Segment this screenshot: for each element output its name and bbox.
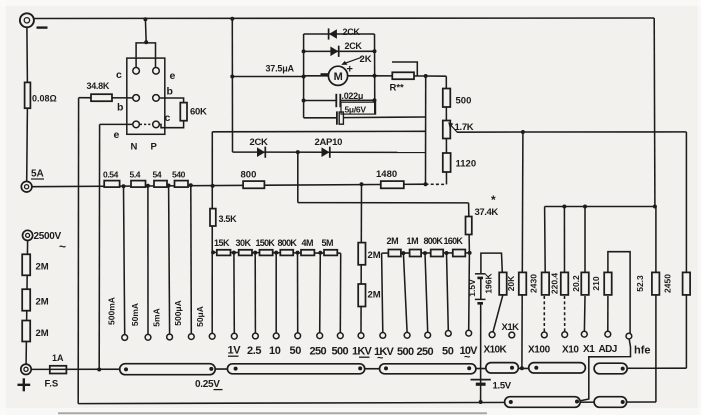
svg-text:250: 250: [310, 346, 327, 358]
wire ohm bus drop to 20.2: [584, 207, 586, 273]
terminal X10: [562, 332, 568, 338]
resistor 3.5K: [210, 209, 216, 226]
contact wafer5 left: [534, 366, 538, 370]
wire main current bus 5A terminal to 1480 right node: [32, 184, 426, 187]
svg-text:~: ~: [464, 352, 471, 364]
node bus 60K branch: [211, 184, 215, 188]
socket pin c right: [153, 121, 160, 128]
contact wafer8 right: [621, 400, 625, 404]
wire 52.3 branch: [655, 207, 657, 403]
contact wafer3 right: [467, 366, 471, 370]
svg-text:800K: 800K: [278, 238, 298, 248]
resistor 220.4: [561, 272, 569, 295]
terminal 500V: [337, 333, 343, 339]
node dc chain 1V: [232, 251, 236, 255]
wire meter protection diode branch 2: [304, 50, 375, 52]
label 5A underline: [31, 178, 44, 180]
wire diode branch vertical from top bus: [231, 19, 233, 152]
svg-text:210: 210: [591, 276, 601, 290]
terminal X100: [541, 332, 547, 338]
svg-text:2M: 2M: [387, 236, 399, 246]
terminal 10V: [273, 333, 279, 339]
node fuse to switch: [97, 368, 101, 372]
svg-text:60K: 60K: [190, 107, 207, 118]
resistor 2M hv 3: [22, 321, 30, 342]
terminal 1KV AC: [380, 333, 386, 339]
contact wafer1 right: [209, 367, 213, 371]
resistor 196K: [499, 272, 507, 295]
resistor 1480: [381, 181, 404, 188]
wire 210 top bracket to hfe terminal: [608, 252, 630, 333]
diode 2CK second: [330, 46, 338, 57]
resistor 37.4K: [466, 217, 472, 235]
capacitor .022u plates: [336, 94, 340, 107]
svg-text:10: 10: [269, 345, 281, 357]
svg-text:2CK: 2CK: [250, 137, 269, 148]
wire rectifier diode row: [233, 151, 426, 153]
socket pin b left: [133, 95, 140, 102]
terminal X1K: [509, 332, 515, 338]
wire 5mA drop: [169, 186, 170, 335]
wire 250V tap drop: [319, 253, 322, 333]
svg-text:5.4: 5.4: [130, 170, 141, 180]
svg-text:5A: 5A: [31, 169, 44, 180]
terminal 50uA: [209, 333, 215, 339]
wire meter plus to R* to node: [375, 75, 426, 77]
svg-text:20.2: 20.2: [571, 275, 581, 292]
rheostat R* top bar: [392, 62, 417, 76]
node left bus d2: [302, 49, 306, 53]
diode 2AP10: [322, 147, 330, 158]
svg-text:50: 50: [442, 346, 454, 358]
svg-text:M: M: [334, 71, 343, 83]
resistor 2M vertical lower: [358, 284, 365, 307]
wire hfe terminal to bottom switch: [578, 339, 631, 401]
terminal X10K: [489, 332, 495, 338]
capacitor 5u/6V electrolytic plates: [337, 111, 344, 124]
terminal 50V AC: [445, 331, 451, 337]
resistor 160K ac: [453, 250, 466, 257]
resistor 1120: [443, 153, 451, 172]
svg-text:4M: 4M: [302, 238, 314, 248]
svg-text:1A: 1A: [52, 353, 64, 363]
contact wafer4 right: [510, 366, 514, 370]
node top bus diode branch: [230, 17, 234, 21]
svg-text:c: c: [116, 69, 122, 81]
svg-text:50: 50: [290, 345, 302, 357]
resistor 800: [243, 181, 264, 188]
terminal X1: [581, 331, 587, 337]
svg-text:b: b: [117, 102, 123, 114]
svg-text:b: b: [167, 86, 173, 98]
svg-text:160K: 160K: [444, 236, 464, 246]
resistor 54: [154, 181, 167, 188]
svg-text:2M: 2M: [36, 328, 49, 339]
node bus 2M tap: [360, 182, 364, 186]
svg-text:34.8K: 34.8K: [87, 81, 110, 91]
node dc chain 50V: [296, 251, 300, 255]
resistor 1M ac: [410, 250, 422, 257]
svg-text:2AP10: 2AP10: [315, 137, 343, 148]
svg-text:2M: 2M: [36, 297, 49, 308]
svg-text:2K: 2K: [360, 54, 372, 65]
transistor socket N-P body: [127, 58, 165, 134]
node socket bracket: [144, 40, 148, 44]
terminal 50mA: [145, 334, 151, 340]
wire ohm battery bracket: [481, 253, 502, 273]
svg-text:0.54: 0.54: [103, 170, 119, 180]
svg-text:0.08Ω: 0.08Ω: [32, 94, 57, 104]
wire socket bracket stem: [144, 19, 147, 42]
contact wafer1 left: [124, 367, 128, 371]
svg-text:5mA: 5mA: [152, 308, 162, 326]
node ac chain 10V: [468, 251, 472, 255]
wire 1V tap drop: [233, 253, 235, 334]
switch wafer bottom right: [594, 397, 627, 408]
wire 250V AC tap drop: [425, 253, 428, 332]
svg-text:P: P: [151, 142, 158, 153]
svg-text:~: ~: [377, 353, 384, 365]
switch wafer ADJ: [594, 363, 627, 374]
wire capacitor branch left: [304, 100, 336, 102]
wire capacitor branch right: [341, 99, 375, 101]
terminal hfe: [626, 333, 632, 339]
terminal plus mark: [18, 378, 31, 391]
wire X10K diagonal: [493, 295, 503, 332]
resistor 800K dc: [280, 250, 293, 256]
terminal 2.5V: [253, 333, 259, 339]
node left bus meter: [302, 75, 306, 79]
resistor 20.2: [581, 272, 589, 295]
svg-text:hfe: hfe: [634, 345, 651, 357]
svg-text:52.3: 52.3: [635, 275, 645, 292]
wire 10V AC tap drop: [468, 253, 471, 330]
node right bus cap: [373, 98, 377, 102]
svg-text:540: 540: [172, 170, 186, 180]
node right bus d2: [373, 49, 377, 53]
wire socket pin e to branch: [100, 123, 133, 125]
svg-text:2500V: 2500V: [34, 231, 62, 242]
resistor 60K: [180, 103, 187, 121]
wire 0.08 ohm shunt to 5A terminal: [26, 108, 29, 181]
svg-text:37.5μA: 37.5μA: [266, 64, 295, 74]
svg-text:0.25V: 0.25V: [195, 379, 220, 390]
terminal 2500V: [23, 230, 33, 240]
terminal 250V: [317, 333, 323, 339]
wire meter protection diode branch top: [304, 33, 375, 35]
wire wiper junction down through 20K to switch: [522, 132, 523, 368]
resistor 500: [443, 89, 451, 108]
terminal minus mark: [37, 26, 48, 28]
wire 2M pair drop to 1KV terminal: [360, 184, 363, 332]
wire wiper junction to far right: [523, 131, 687, 133]
label 0.25V underline: [214, 389, 223, 391]
wire 1.7K wiper to junction: [457, 131, 523, 133]
wire R* vertical to bus: [425, 76, 427, 184]
rheostat R*: [392, 72, 414, 79]
svg-text:X10: X10: [562, 345, 579, 356]
wire 500uA drop: [190, 185, 193, 334]
wire bus extension to 1120 bottom: [426, 183, 447, 185]
node meter link: [230, 75, 234, 79]
node battery bottom: [479, 400, 483, 404]
svg-text:37.4K: 37.4K: [475, 207, 499, 218]
wire 50mA drop: [147, 186, 149, 335]
resistor 2M hv 1: [22, 254, 30, 275]
diode 2CK rectifier: [257, 147, 265, 158]
socket pin e left: [133, 121, 140, 128]
wire 50V tap drop: [297, 253, 299, 333]
svg-text:~: ~: [59, 240, 66, 254]
terminal 5A: [21, 181, 32, 192]
resistor 5.4: [131, 181, 146, 188]
svg-text:2430: 2430: [529, 274, 539, 293]
wire 34.8K branch vertical: [77, 98, 79, 404]
wire ohm bus left drop to 2430: [544, 207, 547, 273]
svg-text:20K: 20K: [506, 275, 516, 291]
svg-text:.022μ: .022μ: [342, 91, 364, 101]
wire diode row junction drop: [297, 152, 299, 203]
wire socket b pin to 60K top: [159, 98, 184, 103]
resistor 20K: [519, 272, 527, 295]
switch wafer X100-X1: [529, 363, 586, 373]
svg-text:2CK: 2CK: [345, 41, 363, 51]
wire battery to bottom rail: [480, 304, 482, 402]
node ac chain 250V: [423, 251, 427, 255]
node shunt 54: [167, 184, 171, 188]
wire socket top bracket: [136, 43, 155, 68]
terminal 5mA: [167, 334, 173, 340]
switch wafer bottom left: [505, 397, 581, 408]
contact wafer7 left: [509, 400, 513, 404]
node ac chain 50V: [445, 251, 449, 255]
meter minus mark: [321, 73, 329, 75]
wire plus terminal through fuse and switch row: [31, 368, 585, 369]
node ac chain 500V: [401, 251, 405, 255]
svg-text:1.5V: 1.5V: [493, 381, 512, 392]
svg-text:500: 500: [456, 96, 472, 107]
wire socket pin e branch vertical: [98, 124, 100, 369]
svg-text:500: 500: [332, 346, 349, 358]
scan bottom streak: [58, 412, 487, 414]
fuse F.S body: [50, 366, 67, 374]
terminal 1V: [231, 333, 237, 339]
wire 500V tap drop: [339, 253, 341, 333]
terminal 500V AC: [404, 332, 410, 338]
potentiometer 1.7K body: [443, 121, 451, 139]
wire ADJ wafer to 2450 branch: [594, 367, 686, 369]
wire meter left bus: [303, 34, 305, 118]
svg-text:1V: 1V: [228, 345, 242, 357]
terminal plus: [21, 364, 31, 374]
contact wafer2 left: [234, 367, 238, 371]
terminal ADJ: [605, 331, 611, 337]
node ohm bus 20.2: [583, 205, 587, 209]
terminal 10V AC: [466, 330, 472, 336]
node diode row: [296, 150, 300, 154]
terminal 500mA: [122, 335, 128, 341]
svg-text:R**: R**: [390, 83, 405, 94]
resistor 4M: [301, 250, 314, 256]
svg-text:X1K: X1K: [502, 322, 520, 333]
svg-text:500μA: 500μA: [173, 300, 183, 326]
node left bus cap: [302, 99, 306, 103]
node bus 1480: [424, 182, 428, 186]
svg-text:1.7K: 1.7K: [455, 122, 474, 133]
switch wafer AC volts: [380, 364, 476, 374]
svg-text:e: e: [114, 129, 120, 141]
wire X10 link: [564, 296, 566, 332]
terminal 250V AC: [425, 332, 431, 338]
node top bus socket: [143, 17, 147, 21]
wire top-right corner drop: [653, 18, 656, 207]
node wiper junction: [521, 130, 525, 134]
resistor 30K: [239, 250, 252, 256]
svg-text:54: 54: [153, 170, 162, 180]
wire electrolytic branch left: [304, 117, 337, 119]
svg-text:1480: 1480: [376, 169, 397, 180]
resistor 15K: [217, 250, 231, 256]
node ohm bus right: [653, 205, 657, 209]
svg-text:2.5: 2.5: [247, 345, 261, 357]
wire X100 link: [543, 296, 545, 332]
svg-text:N: N: [131, 142, 138, 153]
resistor 210: [604, 272, 612, 295]
terminal minus: [20, 13, 34, 27]
svg-text:500: 500: [397, 346, 414, 358]
battery 1.5V ohm cell 2: [475, 299, 486, 303]
resistor 0.54: [104, 181, 119, 188]
svg-text:2M: 2M: [368, 290, 381, 301]
wire ohm top bus: [545, 206, 655, 208]
potentiometer 1.7K wiper arrow: [448, 122, 457, 132]
node shunt 0.54: [122, 184, 126, 188]
svg-text:2450: 2450: [663, 274, 673, 293]
wire 50V AC tap drop: [447, 253, 449, 331]
battery 1.5V main: [471, 380, 491, 385]
wire measuring bus 60K branch to R* vertical: [212, 130, 425, 133]
resistor 2450: [683, 272, 691, 295]
terminal 500uA: [188, 334, 194, 340]
wire far right drop through 2450 to ohm switch: [685, 132, 687, 368]
resistor 2M ac: [388, 250, 401, 257]
contact wafer6 right: [621, 367, 625, 371]
wire 2.5V tap drop: [254, 253, 256, 334]
svg-text:500mA: 500mA: [107, 297, 117, 325]
wire 500/1.7K/1120 chain vertical: [445, 76, 447, 184]
meter M body: [328, 66, 347, 85]
wire 60K branch down through 3.5K to 50uA terminal: [211, 132, 213, 334]
wire bottom frame: [78, 402, 656, 404]
wire DC divider chain: [213, 251, 341, 254]
svg-text:X1: X1: [583, 344, 595, 355]
svg-text:5μ/6V: 5μ/6V: [345, 104, 367, 114]
wire dashed link bottom socket pins: [140, 123, 153, 125]
socket pin c left: [133, 68, 140, 75]
svg-text:5M: 5M: [322, 238, 334, 248]
wire meter link: [232, 76, 303, 78]
contact wafer2 right: [358, 366, 362, 370]
svg-text:2CK: 2CK: [343, 27, 361, 37]
wire AC cal branch horizontal: [298, 202, 469, 204]
terminal 1KV: [358, 333, 364, 339]
socket pin b right: [153, 95, 160, 102]
svg-text:196K: 196K: [484, 272, 494, 293]
svg-text:150K: 150K: [256, 238, 276, 248]
svg-text:1120: 1120: [456, 159, 477, 170]
switch wafer 0.25V: [120, 364, 216, 375]
svg-text:250: 250: [417, 346, 434, 358]
wire top bus from minus terminal to top-right corner: [34, 17, 655, 20]
resistor 2M hv 2: [22, 289, 30, 311]
node dc chain 250V: [318, 251, 322, 255]
terminal 50V: [295, 333, 301, 339]
svg-text:F.S: F.S: [45, 379, 59, 390]
resistor 800K ac: [431, 250, 444, 257]
wire ohm bus drop to 220.4: [563, 207, 565, 273]
node dc chain 50uA: [211, 250, 215, 254]
node shunt 5.4: [146, 184, 150, 188]
svg-text:800K: 800K: [424, 236, 444, 246]
node switch junction: [520, 366, 524, 370]
svg-text:c: c: [165, 112, 171, 124]
wire node to 500 chain: [426, 75, 447, 77]
wire minus terminal down to 0.08 ohm shunt: [26, 27, 29, 83]
svg-text:*: *: [491, 193, 496, 207]
wire between battery cells: [480, 278, 482, 299]
contact wafer7 right: [575, 400, 579, 404]
svg-text:1KV: 1KV: [352, 346, 372, 358]
svg-text:2M: 2M: [36, 262, 49, 273]
wire electrolytic branch right to R* vertical: [344, 116, 426, 119]
resistor 2M vertical upper: [358, 243, 365, 265]
resistor 2430: [542, 272, 550, 295]
svg-text:50mA: 50mA: [130, 303, 140, 326]
wire 37.4K drop to AC chain node: [468, 203, 471, 253]
wire 500V AC tap drop: [403, 253, 407, 332]
wire 500mA drop: [124, 186, 125, 334]
svg-text:X100: X100: [528, 345, 551, 356]
battery 1.5V ohm cell 1: [475, 274, 486, 278]
wire ADJ link: [607, 296, 609, 331]
label 1V underline: [228, 355, 239, 357]
wire meter branch: [304, 75, 375, 77]
resistor 150K: [260, 250, 273, 256]
resistor 540: [175, 181, 189, 188]
node R* output: [424, 74, 428, 78]
svg-text:ADJ: ADJ: [599, 344, 617, 355]
svg-text:1M: 1M: [407, 236, 419, 246]
socket pin e right: [153, 68, 160, 75]
switch wafer DC volts: [227, 364, 364, 374]
resistor 34.8K: [91, 94, 112, 101]
resistor 5M: [324, 250, 337, 256]
label box 5u/6V: [341, 102, 376, 114]
resistor 0.08 ohm shunt: [25, 82, 31, 108]
svg-text:50μA: 50μA: [195, 306, 205, 327]
wire X1 link: [583, 296, 586, 331]
svg-text:220.4: 220.4: [550, 273, 560, 295]
wire 60K bottom to socket c pin: [159, 121, 184, 128]
svg-text:30K: 30K: [236, 238, 252, 248]
svg-text:2M: 2M: [368, 250, 381, 261]
svg-text:e: e: [170, 70, 176, 82]
node dc chain 2.5V: [253, 251, 257, 255]
svg-text:X10K: X10K: [484, 345, 508, 356]
wire meter right bus: [374, 34, 376, 114]
wire 2500V terminal to 2M chain to plus terminal: [26, 241, 28, 365]
label 1KV underline: [359, 356, 370, 358]
